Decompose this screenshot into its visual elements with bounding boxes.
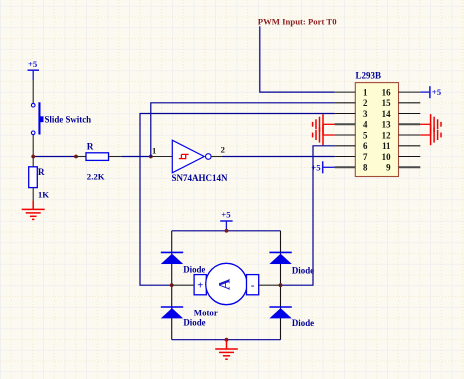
IC U2 L293B xyxy=(355,71,398,177)
diode D3 bottom-left xyxy=(161,307,206,327)
svg-text:Diode: Diode xyxy=(183,317,205,327)
resistor R1 1K xyxy=(29,157,50,201)
svg-text:Diode: Diode xyxy=(183,265,205,275)
motor M1 xyxy=(172,263,281,317)
motor bridge bottom rail wire xyxy=(172,339,281,341)
svg-text:Diode: Diode xyxy=(292,318,314,328)
pin 9 xyxy=(399,166,421,168)
wire: PWM input to L293B pin 1 xyxy=(260,26,335,92)
svg-text:+5: +5 xyxy=(28,59,38,69)
pin 11 xyxy=(399,145,421,147)
svg-text:15: 15 xyxy=(382,98,391,108)
junction motor right xyxy=(279,283,283,287)
svg-text:2: 2 xyxy=(363,98,368,108)
wire: resistor to inverter input node xyxy=(122,156,151,158)
motor bridge right rail wire xyxy=(280,231,282,340)
junction motor left xyxy=(170,283,174,287)
svg-text:5: 5 xyxy=(363,130,368,140)
svg-text:4: 4 xyxy=(363,120,368,130)
svg-text:R: R xyxy=(38,168,45,178)
svg-text:R: R xyxy=(87,143,94,153)
junction at switch node xyxy=(31,155,35,159)
pin 6 xyxy=(335,145,356,147)
svg-text:Slide Switch: Slide Switch xyxy=(45,114,92,124)
svg-text:+5: +5 xyxy=(221,209,231,219)
junction bottom rail xyxy=(225,338,229,342)
junction at inverter input node xyxy=(149,155,153,159)
pin 4 xyxy=(335,123,356,125)
svg-text:A: A xyxy=(216,278,233,290)
pin 10 xyxy=(399,156,421,158)
svg-text:2.2K: 2.2K xyxy=(87,172,105,182)
wire: L293B pin 3 down to motor left rail xyxy=(140,114,335,286)
svg-text:SN74AHC14N: SN74AHC14N xyxy=(172,173,229,183)
op-amp U1 inverter SN74AHC14N xyxy=(151,140,228,183)
pin 13 xyxy=(399,123,421,125)
pin 8 xyxy=(335,166,356,168)
power +5 at pin 16 xyxy=(420,86,442,98)
motor bridge left rail wire xyxy=(171,231,173,340)
svg-text:9: 9 xyxy=(386,163,391,173)
power +5 top-left (P1) xyxy=(28,59,40,80)
svg-text:7: 7 xyxy=(363,152,368,162)
svg-text:11: 11 xyxy=(382,141,390,151)
power +5 above motor xyxy=(220,209,232,230)
svg-text:6: 6 xyxy=(363,141,368,151)
svg-text:+5: +5 xyxy=(432,87,442,97)
wire: switch node to resistor R2 xyxy=(33,156,76,158)
svg-text:+: + xyxy=(197,281,203,292)
svg-text:L293B: L293B xyxy=(356,71,382,81)
power ground at pin 5 (rotated) xyxy=(313,125,335,145)
pin 5 xyxy=(335,134,356,136)
ground GND2 xyxy=(215,340,238,360)
pin 12 xyxy=(399,134,421,136)
svg-text:-: - xyxy=(251,281,255,292)
pin 16 xyxy=(399,91,421,93)
power ground at pin 4 (rotated) xyxy=(313,114,335,134)
wire: L293B pin 6 down to motor right rail xyxy=(281,146,335,285)
pin 3 xyxy=(335,113,356,115)
svg-text:13: 13 xyxy=(382,120,391,130)
svg-text:16: 16 xyxy=(382,87,391,97)
power ground at pin 13 (rotated) xyxy=(420,114,441,134)
junction at +5 rail xyxy=(225,229,229,233)
ground GND1 xyxy=(22,200,45,219)
pin 2 xyxy=(335,102,356,104)
svg-text:10: 10 xyxy=(382,152,391,162)
svg-text:3: 3 xyxy=(363,109,368,119)
pin 7 xyxy=(335,156,356,158)
pin 1 xyxy=(335,91,356,93)
wire: inverter output to L293B pin 7 xyxy=(223,156,335,158)
slide switch S1 xyxy=(31,80,91,157)
wire: feedback node up to L293B pin 2 xyxy=(151,103,335,157)
svg-text:1K: 1K xyxy=(38,189,49,199)
pin 14 xyxy=(399,113,421,115)
diode D1 top-left xyxy=(161,252,206,274)
diode D2 top-right xyxy=(269,252,314,275)
diode D4 bottom-right xyxy=(269,307,314,328)
svg-text:Motor: Motor xyxy=(194,307,218,317)
svg-text:12: 12 xyxy=(382,130,391,140)
pin 15 xyxy=(399,102,421,104)
power ground at pin 12 (rotated) xyxy=(420,125,441,145)
svg-text:1: 1 xyxy=(363,87,367,97)
motor bridge top rail wire xyxy=(172,230,281,232)
svg-text:14: 14 xyxy=(382,109,391,119)
junction at resistor pin xyxy=(74,155,78,159)
resistor R2 2.2K xyxy=(76,143,122,182)
svg-text:PWM Input: Port T0: PWM Input: Port T0 xyxy=(258,17,337,27)
svg-text:1: 1 xyxy=(152,145,156,155)
svg-text:8: 8 xyxy=(363,163,368,173)
pin number labels xyxy=(363,87,391,172)
svg-text:2: 2 xyxy=(221,145,225,155)
svg-text:Diode: Diode xyxy=(292,265,314,275)
power +5 at pin 8 xyxy=(311,161,334,173)
